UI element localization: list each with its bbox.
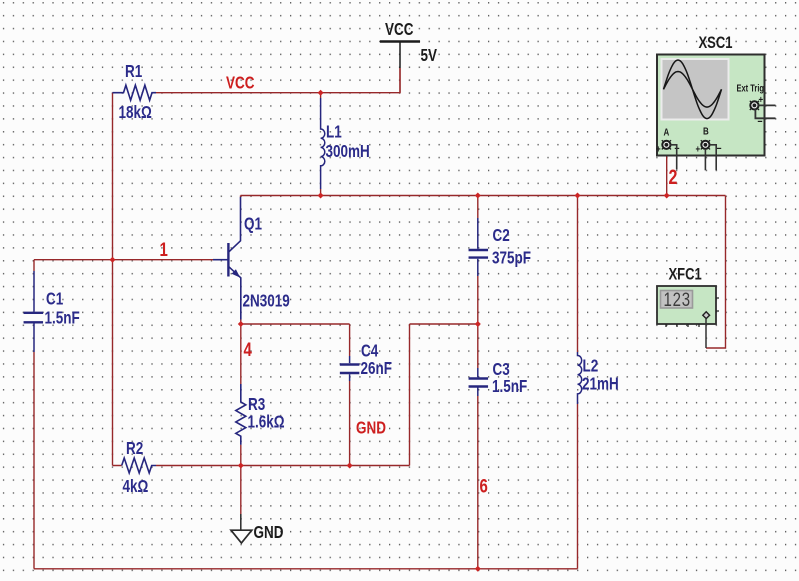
wire emitter node horizontal to C4 branch — [241, 323, 350, 325]
svg-text:VCC: VCC — [385, 20, 413, 39]
XSC1 waveform channel A — [664, 60, 722, 119]
resistor R1 — [113, 85, 157, 100]
svg-text:A: A — [664, 127, 670, 138]
junction VCC/L1 — [318, 90, 324, 96]
svg-text:+: + — [696, 144, 701, 155]
wire C2 branch top — [477, 196, 479, 219]
svg-text:R3: R3 — [248, 395, 265, 414]
wire R3 branch bottom — [240, 445, 242, 466]
svg-text:C1: C1 — [46, 290, 63, 309]
svg-text:4kΩ: 4kΩ — [123, 477, 149, 496]
XSC1 waveform channel B — [664, 72, 722, 108]
svg-text:123: 123 — [664, 288, 691, 310]
svg-text:XFC1: XFC1 — [669, 265, 702, 284]
transistor Q1 2N3019 — [213, 259, 228, 261]
svg-text:4: 4 — [244, 338, 253, 360]
wire right drop to XFC1 — [706, 196, 726, 349]
junction bottom rail — [475, 566, 481, 572]
XFC1 terminal lead — [705, 319, 707, 348]
wire C2 to emitter rail — [477, 276, 479, 368]
XFC1 display — [661, 291, 693, 309]
XFC1 edge pins — [666, 298, 719, 327]
svg-text:+: + — [656, 144, 661, 155]
svg-text:+: + — [759, 94, 764, 105]
svg-text:Q1: Q1 — [244, 215, 262, 234]
svg-text:–: – — [758, 116, 763, 128]
wire R3 branch top — [240, 324, 242, 384]
wire C1 branch lower to bottom rail — [33, 352, 35, 569]
capacitor C3 — [477, 368, 479, 377]
svg-text:1.5nF: 1.5nF — [45, 309, 80, 328]
wire C1 branch upper lead — [33, 260, 35, 271]
svg-text:18kΩ: 18kΩ — [119, 103, 152, 122]
wire collector rail y=194 — [241, 195, 726, 197]
wire scope channel A down — [666, 150, 668, 196]
XFC1 terminal diamond — [703, 312, 710, 319]
wire left vertical from R1 down to R2 — [112, 93, 114, 466]
junction L2 top — [575, 193, 581, 199]
inductor L2 — [578, 352, 582, 404]
wire VCC lead red part — [399, 68, 401, 93]
op XFC1 frequency counter body — [657, 286, 716, 324]
svg-text:1: 1 — [160, 238, 169, 260]
junction emitter node 4 — [238, 321, 244, 327]
wire L1 bottom stub — [320, 189, 322, 196]
junction L1 bottom — [318, 193, 324, 199]
svg-text:1.6kΩ: 1.6kΩ — [248, 413, 285, 432]
svg-text:2N3019: 2N3019 — [243, 292, 291, 311]
svg-text:R2: R2 — [126, 439, 143, 458]
svg-text:1.5nF: 1.5nF — [492, 377, 527, 396]
svg-text:L1: L1 — [326, 123, 342, 142]
wire bottom rail — [34, 568, 578, 570]
wire L1 top stub — [320, 93, 322, 98]
junction C4 bottom — [347, 463, 353, 469]
svg-text:R1: R1 — [125, 62, 142, 81]
wire riser x=409.7 — [409, 324, 411, 466]
capacitor C4 — [349, 356, 351, 363]
junction node 1 — [110, 257, 116, 263]
wire GND branch — [240, 466, 242, 515]
wire L2 branch top — [577, 196, 579, 353]
inductor L1 — [321, 98, 325, 189]
wire L2 branch bottom — [577, 404, 579, 569]
capacitor C1 — [33, 271, 35, 312]
junction R3/GND — [238, 463, 244, 469]
junction C3 top — [475, 321, 481, 327]
svg-text:–: – — [717, 143, 722, 155]
svg-text:VCC: VCC — [226, 74, 254, 93]
wire C4 branch bottom — [349, 381, 351, 466]
op XSC1 oscilloscope body — [657, 55, 765, 156]
resistor R3 — [236, 384, 246, 445]
svg-text:5V: 5V — [421, 46, 438, 65]
junction scope A — [664, 193, 670, 199]
wire mid rail y=464.5 (R2 to riser) — [113, 465, 410, 467]
wire VCC net: R1 right to VCC power corner — [156, 68, 400, 93]
junction C2 top — [475, 193, 481, 199]
svg-text:21mH: 21mH — [582, 375, 619, 394]
svg-text:B: B — [703, 126, 709, 137]
XSC1 screen — [661, 58, 730, 121]
svg-text:L2: L2 — [583, 357, 599, 376]
ground symbol — [240, 514, 242, 530]
svg-text:C2: C2 — [493, 226, 510, 245]
svg-text:C4: C4 — [361, 342, 378, 361]
VCC power symbol 5V — [380, 40, 420, 42]
svg-text:375pF: 375pF — [492, 249, 531, 268]
wire C3 to bottom rail — [477, 396, 479, 569]
wire upper mid rail to C3 junction — [410, 323, 478, 325]
wire collector corner down to Q1 — [240, 196, 242, 198]
svg-text:26nF: 26nF — [361, 359, 392, 378]
wire base node 1 horizontal — [34, 259, 213, 261]
svg-text:XSC1: XSC1 — [699, 33, 733, 52]
svg-text:6: 6 — [480, 475, 489, 497]
svg-text:Ext Trig: Ext Trig — [737, 83, 764, 94]
svg-text:GND: GND — [254, 523, 284, 542]
capacitor C2 — [477, 218, 479, 249]
XSC1 ext trig terminal — [750, 101, 758, 109]
svg-text:300mH: 300mH — [326, 142, 370, 161]
svg-text:GND: GND — [356, 419, 386, 438]
resistor R2 — [122, 458, 156, 473]
wire C4 branch top — [349, 324, 351, 356]
